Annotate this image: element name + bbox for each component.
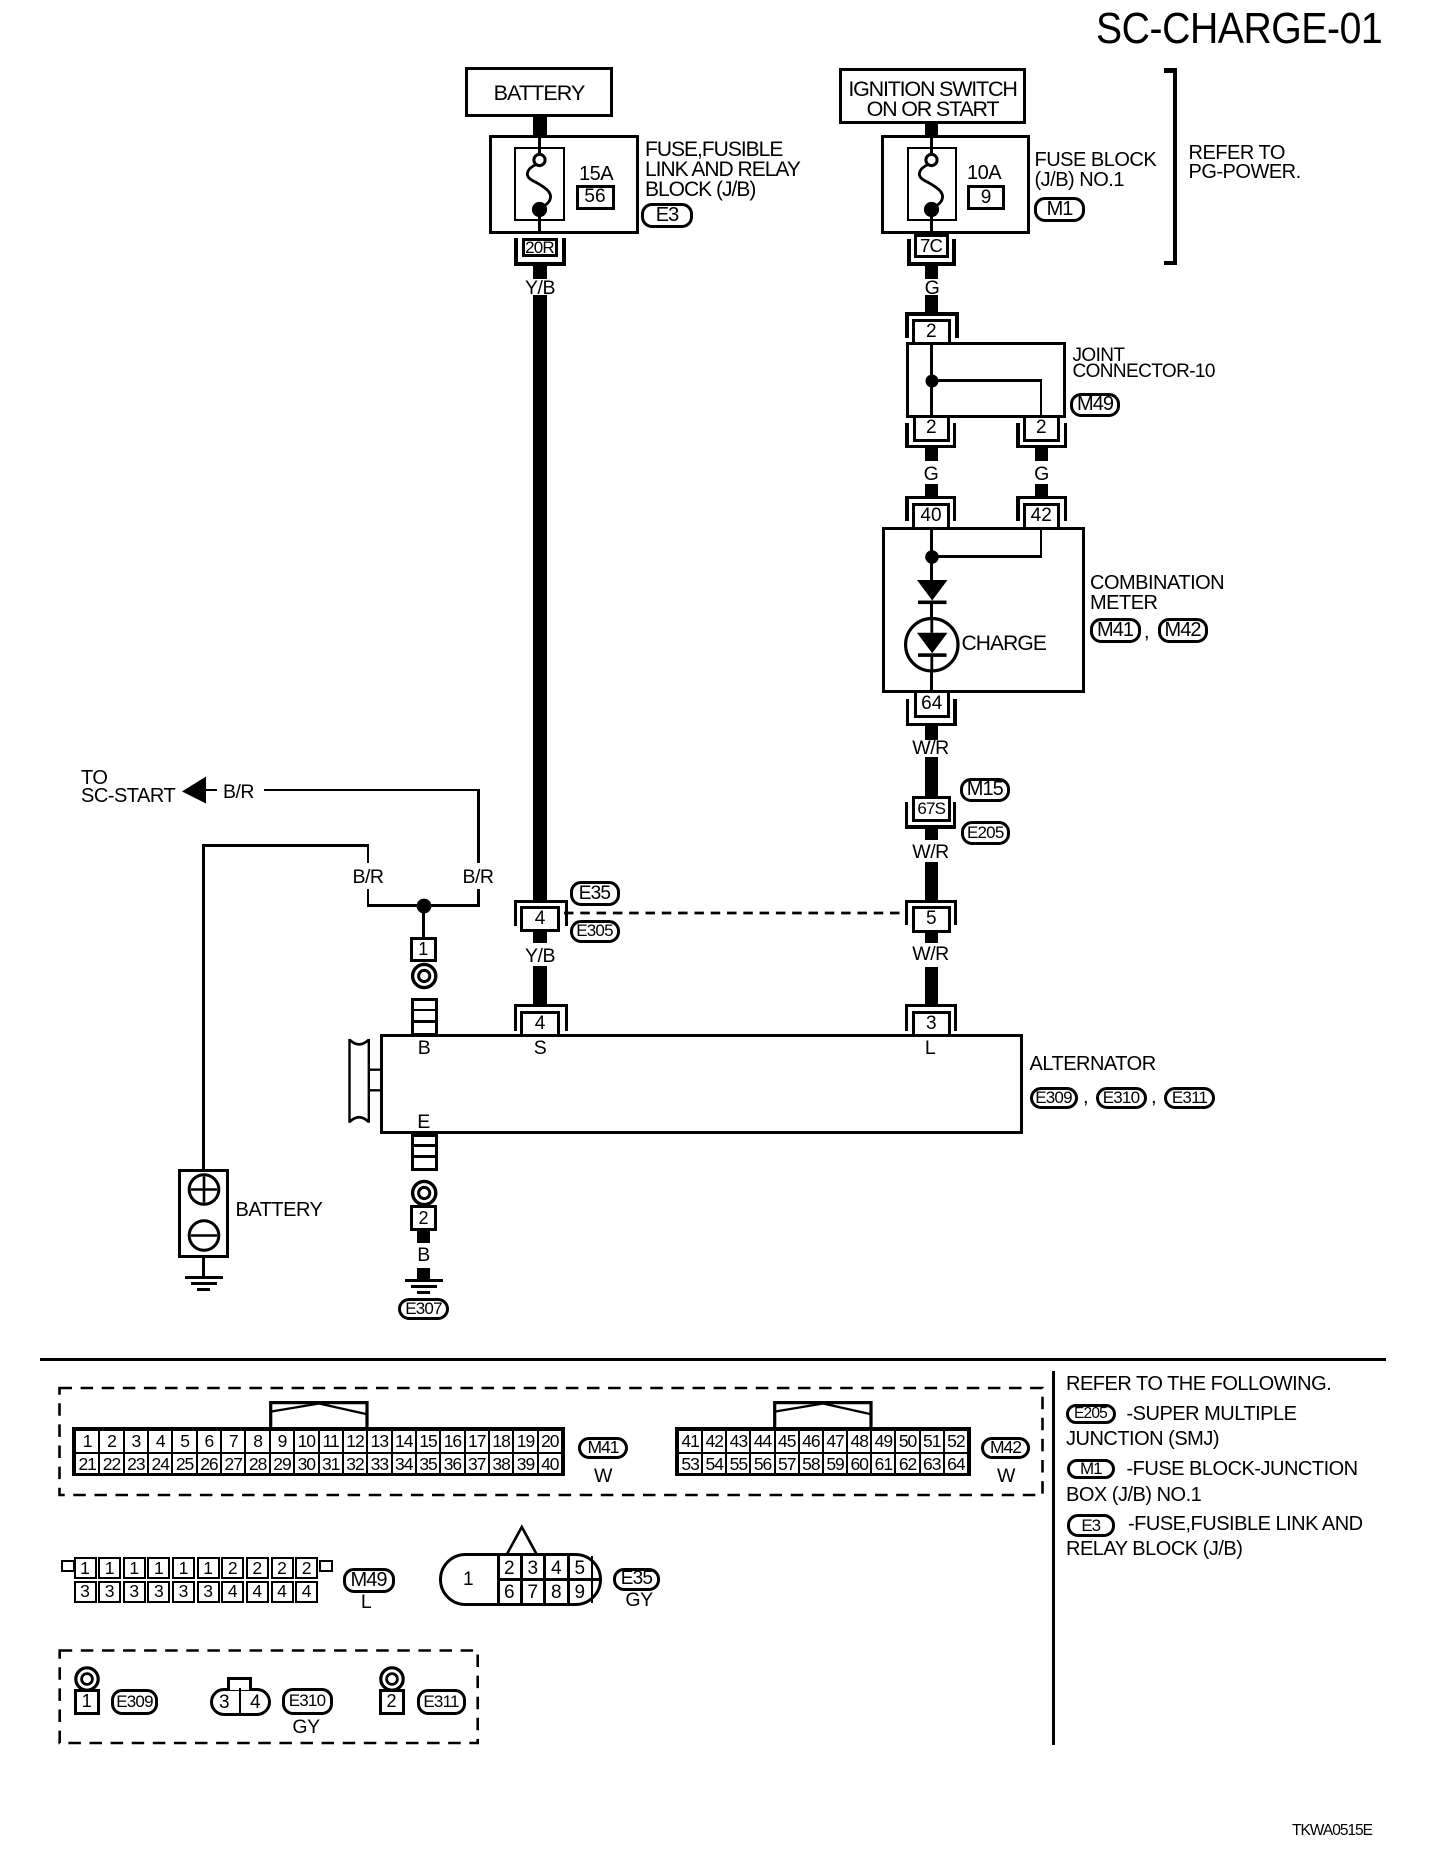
connector ref E309 table xyxy=(111,1689,158,1715)
crimp splice B xyxy=(411,998,439,1036)
wire stub to ground (thick) xyxy=(417,1268,430,1279)
wire 40 into meter (thin) xyxy=(930,527,933,563)
ground symbol battery xyxy=(185,1276,223,1279)
E310 pin 4 xyxy=(224,1693,286,1713)
wire corner down right branch xyxy=(477,789,480,864)
wire stub below 2 (thick) xyxy=(417,1231,430,1243)
M49 ear right xyxy=(319,1560,333,1572)
connector 7C box xyxy=(914,234,949,258)
wire ignition to fuse block (thick) xyxy=(925,124,938,135)
connector 7C bracket xyxy=(907,239,911,266)
meter branch horizontal wire xyxy=(930,555,1042,558)
connector ref E310 xyxy=(1096,1087,1147,1110)
comma 2 xyxy=(1151,1087,1156,1107)
label TO SC-START xyxy=(81,769,175,805)
connector ref E311 xyxy=(1164,1087,1215,1110)
connector 5 bracket xyxy=(905,900,957,903)
connector ref M1 xyxy=(1034,197,1085,222)
E35 pin grid xyxy=(497,1555,500,1605)
dashed box alternator connectors xyxy=(55,1645,485,1749)
E35 caret mark xyxy=(500,1522,544,1556)
wire stub below 2 left (thick) xyxy=(925,448,938,461)
battery label xyxy=(465,83,613,103)
comma 1 xyxy=(1083,1087,1088,1107)
wire G left to 40 (thick) xyxy=(925,484,938,497)
wire stub below 5 (thick) xyxy=(925,933,938,944)
fuse block M1 box xyxy=(881,135,1030,234)
bottom separator line xyxy=(40,1358,1386,1362)
M42 tab mark xyxy=(771,1399,875,1429)
E310 divider xyxy=(239,1688,242,1715)
wire stub below 67S (thick) xyxy=(925,829,938,841)
pin label L xyxy=(899,1039,961,1059)
connector 2 top box xyxy=(912,319,952,345)
connector 67S bracket xyxy=(905,802,908,829)
connector 20R bracket xyxy=(514,238,518,266)
fusible link box xyxy=(514,147,565,221)
wire fuse to box bottom (thin) xyxy=(538,215,541,234)
wire stub below 64 (thick) xyxy=(925,726,938,740)
wire G right to 42 (thick) xyxy=(1035,484,1048,497)
connector 3 box xyxy=(912,1011,952,1038)
label RELAY BLOCK JB xyxy=(1066,1539,1242,1559)
connector ref M42 table xyxy=(981,1437,1030,1459)
connector 2 lower-left box xyxy=(913,415,951,442)
wire LED to meter bottom (thin) xyxy=(930,670,933,693)
wire left branch down xyxy=(367,844,370,863)
combination meter box xyxy=(882,527,1085,693)
wire W/R to 3 (thick) xyxy=(925,967,938,1005)
pin label S xyxy=(509,1039,571,1059)
label B/R right xyxy=(447,868,509,888)
diode symbol xyxy=(902,574,962,614)
ring terminal E xyxy=(404,1173,444,1213)
M42 pin grid xyxy=(675,1427,971,1477)
wire arrow stub xyxy=(205,789,217,792)
E35 connector body xyxy=(439,1553,602,1607)
label REFER TO THE FOLLOWING xyxy=(1066,1374,1331,1394)
battery symbol box xyxy=(178,1169,229,1258)
joint connector-10 box xyxy=(906,342,1066,418)
M41 tab mark xyxy=(267,1399,371,1429)
label W M42 xyxy=(975,1467,1037,1487)
wire dot to diode (thin) xyxy=(930,560,933,580)
connector ref M41 xyxy=(1090,618,1141,643)
dashed link E35 to 5 xyxy=(562,909,922,919)
label CHARGE xyxy=(962,634,1046,654)
label W M41 xyxy=(572,1467,634,1487)
connector ref M42 xyxy=(1158,618,1208,643)
label JUNCTION SMJ xyxy=(1066,1429,1219,1449)
ignition switch box xyxy=(839,68,1026,124)
wire long left to battery xyxy=(202,844,205,1169)
label G right xyxy=(1011,465,1073,485)
label L M49 xyxy=(335,1593,397,1613)
label 15A xyxy=(579,164,613,184)
connector ref E305 xyxy=(570,920,620,944)
connector 3 bracket xyxy=(905,1004,957,1007)
wire left branch resume xyxy=(367,889,370,907)
label COMBINATION METER xyxy=(1090,573,1224,613)
connector 4 E35 bracket xyxy=(514,900,568,903)
wire dot to connector 1 xyxy=(422,906,425,937)
connector ref E35 table xyxy=(613,1568,660,1591)
connector ref E3 xyxy=(641,203,693,228)
E311 ring terminal xyxy=(372,1659,412,1699)
wire left horizontal branch xyxy=(202,844,369,847)
terminal 1 box xyxy=(410,937,437,962)
battery plus terminal xyxy=(182,1168,226,1212)
wire W/R to 5 (thick) xyxy=(925,862,938,901)
wire junction horizontal xyxy=(367,904,479,907)
label FUSE BLOCK-JUNCTION xyxy=(1127,1459,1358,1479)
ring terminal B xyxy=(404,956,444,996)
meter junction dot xyxy=(917,542,947,572)
wire battery to ground xyxy=(202,1258,205,1276)
legend divider vertical xyxy=(1052,1371,1055,1745)
connector ref M15 xyxy=(960,778,1010,803)
label B/R left xyxy=(337,868,399,888)
label Y/B 2 xyxy=(509,947,571,967)
comma separator xyxy=(1144,622,1149,642)
label GY E310 xyxy=(275,1718,337,1738)
wire 42 into meter (thin) xyxy=(1040,527,1043,558)
ground symbol E307 xyxy=(405,1279,443,1282)
label FUSE BLOCK (J/B) NO.1 xyxy=(1035,150,1157,191)
wire stub below 2 right (thick) xyxy=(1035,448,1048,461)
connector 42 bracket xyxy=(1016,496,1067,500)
connector ref M49 xyxy=(1070,393,1120,418)
connector ref E205 xyxy=(961,821,1011,846)
connector 2 lower-right bracket xyxy=(1016,423,1020,448)
label G left xyxy=(900,465,962,485)
wire stub below 4 (thick) xyxy=(533,932,547,943)
E35 cavity 1 label xyxy=(437,1570,499,1590)
connector 2 top bracket xyxy=(905,312,959,316)
ignition switch label xyxy=(839,79,1026,119)
M49 cells xyxy=(74,1557,97,1579)
label B ground xyxy=(393,1246,455,1266)
connector 64 box xyxy=(914,690,950,718)
main wire Y/B vertical (thick) xyxy=(533,295,547,900)
label 10A xyxy=(967,163,1001,183)
alternator pulley xyxy=(340,1030,386,1130)
connector 67S box xyxy=(912,796,951,822)
pin label B xyxy=(393,1039,455,1059)
connector ref E205 legend xyxy=(1066,1404,1116,1424)
dashed box meter connectors xyxy=(55,1383,1047,1499)
connector S4 box xyxy=(520,1011,560,1038)
label FUSE FUSIBLE LINK AND xyxy=(1128,1514,1363,1534)
terminal 2 box xyxy=(410,1205,437,1231)
fuse block E3 box xyxy=(489,135,639,234)
label ALTERNATOR xyxy=(1030,1054,1156,1074)
fuse number box 9 xyxy=(967,185,1005,210)
connector 40 box xyxy=(912,503,950,531)
connector ref E311 table xyxy=(417,1689,466,1715)
label B/R arrow xyxy=(223,783,254,803)
wire into fuse (thin) xyxy=(930,135,933,153)
connector ref M1 legend xyxy=(1067,1459,1116,1480)
wire G to joint connector (thick) xyxy=(925,295,938,312)
label W/R 2 xyxy=(900,843,962,863)
wire inside joint connector (thin) xyxy=(930,342,933,415)
wire into fuse (thin) xyxy=(538,135,541,153)
joint junction dot xyxy=(917,366,947,396)
label G xyxy=(901,279,963,299)
connector 5 box xyxy=(912,906,952,933)
refer bracket xyxy=(1173,68,1178,265)
wire right branch resume xyxy=(477,889,480,907)
connector ref E307 xyxy=(398,1298,449,1321)
fusible link symbol 15A xyxy=(480,130,600,240)
E310 connector body xyxy=(210,1688,271,1716)
LED charge lamp xyxy=(892,605,972,685)
wire battery to fuse block (thick) xyxy=(533,117,547,135)
wire fuse to box bottom (thin) xyxy=(930,215,933,234)
connector 4 E35 box xyxy=(520,906,560,932)
wire stub below 7C (thick) xyxy=(925,266,938,279)
label REFER TO PG-POWER xyxy=(1189,144,1301,183)
connector ref E3 legend xyxy=(1067,1514,1116,1537)
label BATTERY xyxy=(236,1200,323,1220)
pin label E xyxy=(393,1113,455,1133)
junction dot B xyxy=(408,890,440,922)
connector 42 box xyxy=(1023,503,1061,531)
label BOX JB NO.1 xyxy=(1066,1485,1201,1505)
connector 2 lower-right box xyxy=(1023,415,1061,442)
M41 pin grid xyxy=(72,1427,565,1477)
fuse box inner xyxy=(907,147,957,221)
label W/R 3 xyxy=(900,945,962,965)
label GY E35 xyxy=(608,1591,670,1611)
label SUPER MULTIPLE xyxy=(1127,1404,1297,1424)
E311 terminal 2 box xyxy=(379,1689,405,1715)
wire Y/B to S4 (thick) xyxy=(533,966,547,1005)
label Y/B xyxy=(509,279,571,299)
battery minus terminal xyxy=(182,1214,226,1258)
E309 ring terminal xyxy=(67,1659,107,1699)
wire W/R to 67S (thick) xyxy=(925,757,938,796)
connector 64 bracket xyxy=(906,699,910,727)
connector ref E35 xyxy=(570,881,620,906)
E310 pin 3 xyxy=(193,1693,255,1713)
connector ref M41 table xyxy=(578,1437,628,1459)
M49 ear left xyxy=(61,1560,75,1572)
battery box xyxy=(465,67,613,117)
connector 2 lower-left bracket xyxy=(905,423,909,448)
E310 tab xyxy=(227,1677,252,1690)
wire diode to LED (thin) xyxy=(930,604,933,620)
alternator box xyxy=(380,1034,1023,1134)
connector ref E309 xyxy=(1030,1087,1078,1110)
label FUSE,FUSIBLE LINK AND RELAY BLOCK (J/B) xyxy=(645,140,800,200)
connector 20R box xyxy=(522,238,558,257)
label W/R 1 xyxy=(900,739,962,759)
E309 terminal 1 box xyxy=(74,1689,101,1715)
title SC-CHARGE-01 xyxy=(1096,7,1382,51)
fuse number box 56 xyxy=(576,185,615,211)
label JOINT CONNECTOR-10 xyxy=(1073,348,1215,380)
connector ref E310 table xyxy=(282,1688,333,1716)
wire B/R horizontal to corner xyxy=(264,789,481,792)
connector 40 bracket xyxy=(905,496,956,500)
watermark TKWA0515E xyxy=(1292,1821,1372,1841)
crimp splice E xyxy=(411,1134,439,1171)
fuse symbol 10A xyxy=(872,130,992,240)
joint branch wire right xyxy=(930,379,1040,382)
connector ref M49 table xyxy=(343,1568,395,1593)
connector S4 bracket xyxy=(514,1004,568,1007)
wire stub below 20R (thick) xyxy=(533,266,547,279)
arrow to SC-START xyxy=(178,772,218,812)
